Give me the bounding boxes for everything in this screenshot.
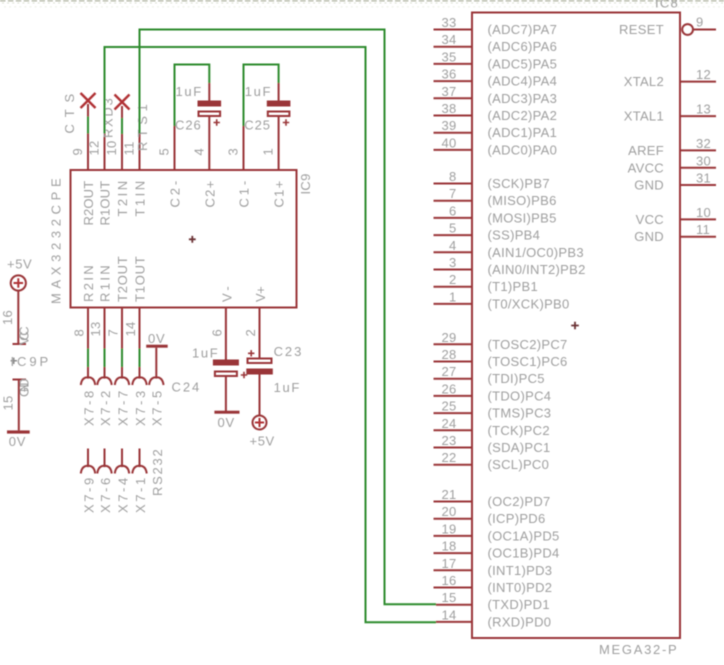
svg-text:X7-4: X7-4 <box>115 478 130 514</box>
svg-text:1uF: 1uF <box>192 346 218 361</box>
svg-text:(SS)PB4: (SS)PB4 <box>488 228 541 243</box>
capacitor C23 top plate (open, plus up) <box>248 359 272 364</box>
capacitor C26 top lead <box>208 83 210 101</box>
svg-text:15: 15 <box>1 395 16 410</box>
capacitor C26 bottom plate <box>199 112 221 117</box>
IC8 pin 17 ((INT1)PD3) stub <box>434 556 553 578</box>
IC9 pin 8 (R2IN) stub <box>87 307 89 349</box>
svg-text:1: 1 <box>449 289 457 304</box>
IC9 pin 14 (T1OUT) stub <box>139 307 141 349</box>
svg-text:R1OUT: R1OUT <box>98 181 113 226</box>
wire from pin 7 to connector <box>121 349 123 368</box>
IC8 pin 23 ((SDA)PC1) stub <box>434 433 551 455</box>
svg-text:T1OUT: T1OUT <box>133 256 148 302</box>
svg-text:6: 6 <box>210 329 225 337</box>
svg-text:9: 9 <box>70 148 85 156</box>
capacitor C24 bottom plate <box>215 372 237 377</box>
svg-text:RS232: RS232 <box>150 449 165 496</box>
svg-text:(TCK)PC2: (TCK)PC2 <box>488 423 550 438</box>
svg-text:(SCK)PB7: (SCK)PB7 <box>488 176 550 191</box>
wire TXD net: IC9 pin11 to IC8 pin15 <box>140 30 437 605</box>
svg-text:(ADC0)PA0: (ADC0)PA0 <box>488 142 558 157</box>
capacitor C26 polarity plus <box>214 119 220 125</box>
svg-text:(ICP)PD6: (ICP)PD6 <box>488 511 546 526</box>
svg-text:25: 25 <box>441 399 456 414</box>
wire C23 to +5V <box>259 375 261 416</box>
svg-text:3: 3 <box>449 255 457 270</box>
IC8 pin 33 ((ADC7)PA7) stub <box>434 15 558 37</box>
IC8 pin 14 ((RXD)PD0) stub <box>436 607 551 629</box>
svg-text:(MISO)PB6: (MISO)PB6 <box>488 193 557 208</box>
IC8 pin 19 ((OC1A)PD5) stub <box>434 521 560 543</box>
connector pin X7-7 <box>115 367 131 426</box>
IC9 pin 9 (R2OUT) stub <box>87 134 89 172</box>
wire from pin 13 to connector <box>104 349 106 368</box>
svg-text:R1IN: R1IN <box>98 265 113 302</box>
svg-text:5: 5 <box>157 148 172 156</box>
green stub on pin 10 <box>121 106 123 118</box>
svg-text:6: 6 <box>449 203 457 218</box>
svg-text:X7-8: X7-8 <box>81 391 96 427</box>
IC9 pin 4 (C2+) stub <box>208 117 210 171</box>
svg-text:29: 29 <box>441 330 456 345</box>
svg-text:(ADC3)PA3: (ADC3)PA3 <box>488 91 558 106</box>
svg-text:1uF: 1uF <box>245 84 271 99</box>
capacitor C24 top lead from pin 6 <box>225 359 227 360</box>
IC9 pin 12 (R1OUT) stub <box>104 134 106 172</box>
svg-text:19: 19 <box>441 521 456 536</box>
svg-text:10: 10 <box>104 140 119 155</box>
svg-text:+5V: +5V <box>250 434 275 449</box>
connector pin X7-9 <box>81 449 97 514</box>
wire loop from pin to capacitor C25 <box>244 65 279 127</box>
IC8 pin 1 ((T0/XCK)PB0) stub <box>434 289 570 311</box>
svg-text:12: 12 <box>696 67 711 82</box>
IC9 pin 13 (R1IN) stub <box>104 307 106 349</box>
+5V supply circle IC9P <box>11 275 26 290</box>
svg-text:(OC1B)PD4: (OC1B)PD4 <box>488 546 560 561</box>
svg-text:(TMS)PC3: (TMS)PC3 <box>488 406 552 421</box>
svg-text:C23: C23 <box>274 344 302 359</box>
IC8 pin 9 RESET with inversion bubble <box>619 15 716 38</box>
IC8 pin 28 ((TOSC1)PC6) stub <box>434 347 568 369</box>
IC8 pin 8 ((SCK)PB7) stub <box>434 169 550 191</box>
IC8 pin 29 ((TOSC2)PC7) stub <box>434 330 568 352</box>
svg-text:XTAL2: XTAL2 <box>624 74 664 89</box>
IC8 pin 31 (GND) stub <box>634 171 716 193</box>
svg-text:5: 5 <box>449 221 457 236</box>
svg-text:IC9P: IC9P <box>11 354 49 369</box>
connector pin X7-4 <box>115 449 131 514</box>
svg-text:2: 2 <box>243 329 258 337</box>
GND pin wire <box>18 380 20 431</box>
svg-text:C24: C24 <box>172 380 200 395</box>
connector pin X7-6 <box>97 449 113 514</box>
svg-text:23: 23 <box>441 433 456 448</box>
capacitor C23 bottom plate <box>246 369 272 375</box>
svg-text:0V: 0V <box>9 434 26 449</box>
svg-text:C2-: C2- <box>168 181 183 208</box>
svg-text:RESET: RESET <box>619 22 664 37</box>
svg-text:16: 16 <box>0 310 15 325</box>
svg-text:X7-9: X7-9 <box>81 478 96 514</box>
svg-text:C25: C25 <box>244 118 270 133</box>
svg-text:0V: 0V <box>218 415 235 430</box>
svg-text:4: 4 <box>192 148 207 156</box>
svg-text:(AIN0/INT2)PB2: (AIN0/INT2)PB2 <box>488 262 586 277</box>
+5V supply circle under C23 <box>253 416 267 430</box>
no-connect X on pin 9 <box>81 93 96 108</box>
svg-text:4: 4 <box>449 238 457 253</box>
connector pin X7-5 <box>149 367 165 426</box>
svg-text:(MOSI)PB5: (MOSI)PB5 <box>488 210 557 225</box>
svg-text:(ADC7)PA7: (ADC7)PA7 <box>488 22 558 37</box>
capacitor C24 top plate <box>213 360 239 366</box>
svg-text:36: 36 <box>441 67 456 82</box>
svg-text:(TDO)PC4: (TDO)PC4 <box>488 388 552 403</box>
capacitor C24 polarity plus <box>241 372 247 378</box>
svg-text:C1-: C1- <box>237 181 252 208</box>
svg-text:26: 26 <box>441 381 456 396</box>
IC8 pin 4 ((AIN1/OC0)PB3) stub <box>434 238 584 260</box>
wire C24 to ground <box>225 377 227 412</box>
svg-text:IC8: IC8 <box>655 0 678 11</box>
IC9P designator with origin cross <box>11 354 49 369</box>
IC9 pin 5 (C2-) stub <box>174 126 176 171</box>
svg-text:21: 21 <box>441 487 456 502</box>
VCC pin wire <box>17 291 19 344</box>
svg-text:(TOSC1)PC6: (TOSC1)PC6 <box>488 354 568 369</box>
svg-text:C2+: C2+ <box>202 181 217 208</box>
IC9 origin cross <box>189 236 196 243</box>
IC9 pin 2 (V+) stub <box>259 307 261 358</box>
svg-text:8: 8 <box>449 169 457 184</box>
svg-text:22: 22 <box>441 450 456 465</box>
svg-text:(AIN1/OC0)PB3: (AIN1/OC0)PB3 <box>488 245 584 260</box>
svg-text:10: 10 <box>696 205 711 220</box>
IC8 pin 10 (VCC) stub <box>636 205 716 227</box>
svg-text:39: 39 <box>441 118 456 133</box>
svg-text:0V: 0V <box>148 331 165 346</box>
svg-text:VCC: VCC <box>17 326 32 345</box>
svg-text:14: 14 <box>441 607 456 622</box>
IC8 pin 12 (XTAL2) stub <box>624 67 716 89</box>
svg-text:(T1)PB1: (T1)PB1 <box>488 279 539 294</box>
IC8 pin 6 ((MOSI)PB5) stub <box>434 203 557 225</box>
svg-text:MEGA32-P: MEGA32-P <box>599 642 677 657</box>
svg-text:(TXD)PD1: (TXD)PD1 <box>488 597 550 612</box>
svg-text:9: 9 <box>696 15 704 30</box>
capacitor C25 polarity plus <box>283 119 289 125</box>
connector pin X7-8 <box>81 367 97 426</box>
svg-text:38: 38 <box>441 101 456 116</box>
svg-text:+5V: +5V <box>7 257 32 272</box>
connector pin X7-3 <box>132 367 148 426</box>
svg-text:20: 20 <box>441 504 456 519</box>
svg-text:(ADC6)PA6: (ADC6)PA6 <box>488 39 558 54</box>
op-amp/IC U-box IC9 MAX3232CPE body <box>71 170 297 308</box>
ground bar 0V under C24 <box>214 411 239 414</box>
svg-text:X7-7: X7-7 <box>115 391 130 427</box>
svg-text:(OC1A)PD5: (OC1A)PD5 <box>488 528 560 543</box>
IC8 pin 18 ((OC1B)PD4) stub <box>434 539 560 561</box>
svg-text:11: 11 <box>696 222 710 237</box>
frame border top dashed lines <box>0 1 724 7</box>
svg-text:13: 13 <box>88 321 103 336</box>
svg-text:V+: V+ <box>253 286 268 302</box>
svg-text:35: 35 <box>441 49 456 64</box>
IC8 pin 30 (AVCC) stub <box>628 153 716 175</box>
svg-text:(SCL)PC0: (SCL)PC0 <box>488 457 550 472</box>
svg-text:18: 18 <box>441 539 456 554</box>
IC8 pin 5 ((SS)PB4) stub <box>434 221 541 243</box>
svg-text:C26: C26 <box>175 118 201 133</box>
IC8 pin 20 ((ICP)PD6) stub <box>434 504 546 526</box>
svg-text:GND: GND <box>634 178 664 193</box>
svg-text:(ADC2)PA2: (ADC2)PA2 <box>488 108 558 123</box>
IC8 pin 3 ((AIN0/INT2)PB2) stub <box>434 255 586 277</box>
connector pin X7-2 <box>97 367 113 426</box>
svg-text:28: 28 <box>441 347 456 362</box>
svg-text:R2IN: R2IN <box>81 265 96 302</box>
svg-text:7: 7 <box>449 186 457 201</box>
svg-text:XTAL1: XTAL1 <box>624 109 664 124</box>
IC8 pin 11 (GND) stub <box>634 222 716 244</box>
IC8 pin 16 ((INT0)PD2) stub <box>434 573 553 595</box>
IC8 pin 26 ((TDO)PC4) stub <box>434 381 552 403</box>
svg-text:(ADC5)PA5: (ADC5)PA5 <box>488 56 558 71</box>
GND pin dash <box>13 379 27 381</box>
IC9 pin 11 (T1IN) stub <box>139 134 141 172</box>
svg-text:(ADC4)PA4: (ADC4)PA4 <box>488 74 558 89</box>
wire from pin 14 to connector <box>139 349 141 368</box>
svg-text:(SDA)PC1: (SDA)PC1 <box>488 440 551 455</box>
IC8 pin 21 ((OC2)PD7) stub <box>434 487 551 509</box>
svg-text:(INT1)PD3: (INT1)PD3 <box>488 563 553 578</box>
svg-text:12: 12 <box>87 140 102 155</box>
svg-text:(RXD)PD0: (RXD)PD0 <box>488 614 552 629</box>
svg-text:X7-5: X7-5 <box>150 391 165 427</box>
IC8 origin cross <box>571 322 579 330</box>
wire loop from pin to capacitor C26 <box>175 65 210 127</box>
svg-text:T2OUT: T2OUT <box>115 256 130 302</box>
svg-text:(OC2)PD7: (OC2)PD7 <box>488 494 551 509</box>
svg-text:37: 37 <box>441 84 456 99</box>
svg-text:17: 17 <box>441 556 456 571</box>
VCC pin dash <box>13 343 27 345</box>
capacitor C23 polarity plus <box>248 350 254 356</box>
svg-text:3: 3 <box>226 148 241 156</box>
svg-text:31: 31 <box>696 171 711 186</box>
svg-text:32: 32 <box>696 136 711 151</box>
no-connect X on pin 10 <box>115 95 130 110</box>
svg-text:X7-2: X7-2 <box>98 391 113 427</box>
svg-text:CTS: CTS <box>62 93 77 133</box>
wire net CTS stub on pin 9 <box>87 104 89 117</box>
svg-text:8: 8 <box>72 329 87 337</box>
svg-text:16: 16 <box>441 573 456 588</box>
svg-text:C1+: C1+ <box>272 181 287 208</box>
IC8 pin 13 (XTAL1) stub <box>624 102 716 124</box>
IC8 pin 2 ((T1)PB1) stub <box>434 272 539 294</box>
svg-text:X7-6: X7-6 <box>98 478 113 514</box>
IC8 pin 36 ((ADC4)PA4) stub <box>434 67 558 89</box>
svg-text:(T0/XCK)PB0: (T0/XCK)PB0 <box>488 296 570 311</box>
capacitor C25 bottom plate <box>268 112 290 117</box>
svg-text:T1IN: T1IN <box>133 181 148 217</box>
IC8 pin 37 ((ADC3)PA3) stub <box>434 84 558 106</box>
IC8 pin 35 ((ADC5)PA5) stub <box>434 49 558 71</box>
ground bar IC9P <box>7 430 30 433</box>
svg-text:33: 33 <box>441 15 456 30</box>
svg-text:1: 1 <box>261 148 276 156</box>
wire from pin 8 to connector <box>87 349 89 368</box>
IC9 pin 1 (C1+) stub <box>278 117 280 171</box>
IC8 pin 24 ((TCK)PC2) stub <box>434 416 550 438</box>
IC8 pin 22 ((SCL)PC0) stub <box>434 450 550 472</box>
IC9 pin 7 (T2OUT) stub <box>121 307 123 349</box>
svg-text:(ADC1)PA1: (ADC1)PA1 <box>488 125 558 140</box>
IC8 pin 38 ((ADC2)PA2) stub <box>434 101 558 123</box>
IC8 pin 15 ((TXD)PD1) stub <box>436 590 550 612</box>
svg-text:RXD3: RXD3 <box>101 98 116 138</box>
svg-text:2: 2 <box>449 272 457 287</box>
svg-text:(TDI)PC5: (TDI)PC5 <box>488 371 545 386</box>
svg-text:14: 14 <box>123 321 138 336</box>
svg-text:(TOSC2)PC7: (TOSC2)PC7 <box>488 337 568 352</box>
svg-text:34: 34 <box>441 32 456 47</box>
svg-text:MAX3232CPE: MAX3232CPE <box>49 178 64 304</box>
ground symbol 0V above X7-5 <box>146 345 168 348</box>
wire RXD net: IC9 pin12 to IC8 pin14 <box>105 47 437 622</box>
svg-text:GND: GND <box>634 229 664 244</box>
svg-text:X7-1: X7-1 <box>133 478 148 514</box>
svg-text:X7-3: X7-3 <box>133 391 148 427</box>
capacitor C26 top plate <box>198 101 222 107</box>
svg-text:VCC: VCC <box>636 212 664 227</box>
IC8 pin 39 ((ADC1)PA1) stub <box>434 118 558 140</box>
IC9 pin 3 (C1-) stub <box>243 126 245 171</box>
svg-text:AREF: AREF <box>628 143 664 158</box>
IC9 pin 6 (V-) stub <box>225 307 227 360</box>
svg-text:1uF: 1uF <box>274 380 300 395</box>
svg-text:1uF: 1uF <box>176 84 202 99</box>
IC U-box IC8 MEGA32-P body <box>472 13 680 639</box>
IC8 pin 7 ((MISO)PB6) stub <box>434 186 557 208</box>
svg-text:R2OUT: R2OUT <box>81 181 96 226</box>
svg-text:7: 7 <box>106 329 121 337</box>
IC9 pin 10 (T2IN) stub <box>121 134 123 171</box>
capacitor C25 top plate <box>267 101 291 107</box>
svg-text:13: 13 <box>696 102 711 117</box>
IC8 pin 32 (AREF) stub <box>628 136 716 158</box>
IC8 pin 40 ((ADC0)PA0) stub <box>434 135 558 157</box>
svg-text:RTS1: RTS1 <box>135 104 150 151</box>
svg-text:30: 30 <box>696 153 711 168</box>
svg-text:(INT0)PD2: (INT0)PD2 <box>488 580 553 595</box>
svg-text:T2IN: T2IN <box>115 181 130 217</box>
IC8 pin 25 ((TMS)PC3) stub <box>434 399 552 421</box>
IC8 pin 27 ((TDI)PC5) stub <box>434 364 545 386</box>
svg-text:27: 27 <box>441 364 456 379</box>
svg-text:AVCC: AVCC <box>628 160 664 175</box>
svg-text:15: 15 <box>441 590 456 605</box>
svg-text:24: 24 <box>441 416 456 431</box>
svg-text:V-: V- <box>219 286 234 302</box>
capacitor C25 top lead <box>278 83 280 101</box>
IC8 pin 34 ((ADC6)PA6) stub <box>434 32 558 54</box>
svg-text:IC9: IC9 <box>298 173 313 194</box>
connector pin X7-1 <box>132 449 148 514</box>
svg-text:40: 40 <box>441 135 456 150</box>
